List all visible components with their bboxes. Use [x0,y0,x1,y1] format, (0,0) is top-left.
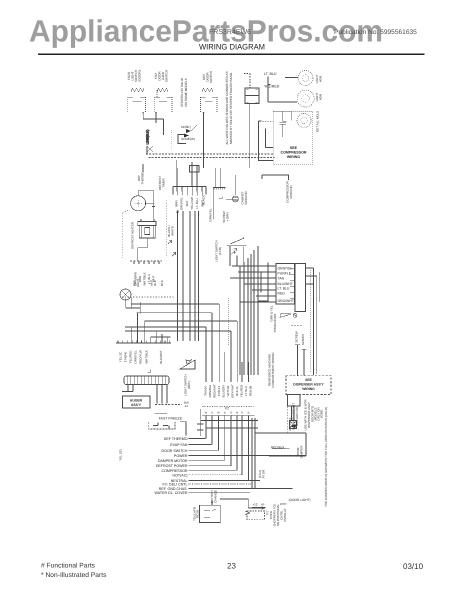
svg-text:RC2B: RC2B [196,510,200,518]
svg-text:GREEN: GREEN [301,334,305,345]
harness label box [276,264,295,305]
svg-text:AND ADD ON: AND ADD ON [295,407,299,426]
harness connector shell [290,264,306,312]
wire from S1/S2 junction [143,113,163,135]
svg-text:G: G [230,412,232,415]
refr lamp L4 [120,289,131,300]
harness exit wires [261,263,317,376]
dash under screw [291,325,303,327]
svg-text:WIRING: WIRING [287,155,301,159]
matrix horizontals [201,418,306,489]
harness dashed pair to compressor [146,153,275,158]
plug bracket [178,135,186,144]
svg-text:MARKED BY SOLID OR STRIPED TRA: MARKED BY SOLID OR STRIPED TRACER BAND. [229,72,233,144]
svg-text:ASS'Y: ASS'Y [131,403,142,407]
svg-text:COMPRESSOR: COMPRESSOR [281,151,307,155]
svg-text:40W: 40W [319,76,323,82]
plug arrow 1 [186,125,197,133]
svg-text:ORN/YEL: ORN/YEL [180,197,184,211]
svg-text:AT DR: AT DR [262,469,266,479]
svg-text:GRY/WHT: GRY/WHT [231,384,235,398]
label compressor ground [286,180,294,203]
svg-text:FAST FREEZE: FAST FREEZE [159,417,183,421]
note to damper open position [324,407,328,507]
matrix verticals [206,416,249,481]
label ground screw [209,208,230,223]
page number [227,562,236,571]
svg-text:ON SOME MODELS: ON SOME MODELS [184,78,188,107]
P2 pin letters [205,412,250,415]
svg-text:R: R [211,412,213,415]
svg-text:COMPRESSOR: COMPRESSOR [162,469,188,473]
harness wire names [278,267,294,304]
DIAGRAM right vertical bus [178,192,203,342]
note all wires color coded [225,71,233,144]
svg-text:23: 23 [227,562,236,571]
svg-text:DEFROST HEATER: DEFROST HEATER [131,221,135,249]
coil switch 1 [131,88,144,92]
svg-text:FROM DOOR: FROM DOOR [273,313,277,332]
lamp L1 label [315,74,323,83]
svg-text:SEE: SEE [290,146,298,150]
heater wire color labels [134,272,165,286]
svg-text:AT-: AT- [261,503,265,507]
svg-text:DOOR SWITCH: DOOR SWITCH [162,449,188,453]
connector row ticks [116,340,171,343]
DIAGRAM top-left switches [127,70,233,145]
connector dashes heater [130,260,162,262]
svg-text:# Functional Parts: # Functional Parts [41,563,96,570]
junction box above P3 [190,162,200,172]
wires below fzr switch [230,246,244,282]
heater boundary dashed [166,200,168,256]
svg-text:SCME(W): SCME(W) [181,137,195,141]
label freezer light switch [127,70,142,82]
svg-text:YEL/RED: YEL/RED [264,85,280,89]
svg-text:Publication No. 5995561635: Publication No. 5995561635 [334,29,417,36]
svg-text:BLU/WHT: BLU/WHT [278,282,293,286]
label light modif [289,498,311,502]
svg-text:ORN/BLK: ORN/BLK [208,385,212,398]
watermark [29,13,383,48]
svg-text:PUR-14: PUR-14 [217,385,221,396]
svg-text:WIRING: WIRING [302,387,315,391]
svg-text:YEL/RED: YEL/RED [240,385,244,397]
label heater leads [167,225,175,237]
label fast freeze [154,413,183,420]
dotted divider [171,130,173,149]
label use with add kit [292,403,300,430]
wires refr lamp grid [125,297,237,343]
wire fast freeze right [180,409,204,436]
label board [193,507,200,521]
svg-text:DAMPER MOTOR: DAMPER MOTOR [158,459,188,463]
svg-text:SCREW: SCREW [295,331,299,342]
note reinforce sentence [268,352,276,388]
dispenser side labels [304,399,324,431]
label yel 103 [119,449,123,461]
svg-text:BLK: BLK [153,280,157,286]
wire thermostat to bus [138,191,155,222]
compressor box [273,111,312,165]
svg-text:* Non-Illustrated Parts: * Non-Illustrated Parts [41,572,107,579]
label defrost timer [158,176,166,191]
header rule [38,53,425,55]
door connector X box [290,421,297,429]
title WIRING DIAGRAM [199,43,265,52]
svg-text:YEL-2C: YEL-2C [119,351,123,362]
switch box S3 [201,97,218,113]
label freezer door ajar switch [154,70,169,82]
heater connector pins [134,261,159,264]
label defrost heater [131,221,135,249]
overload relay box [244,74,259,169]
lamp L3 aux [297,113,311,127]
labels above lamp grid [133,279,158,288]
svg-text:GROUND: GROUND [289,185,293,199]
fast freeze contacts [153,423,169,429]
svg-text:LT. BLU: LT. BLU [244,386,248,396]
svg-text:BLU/GRY: BLU/GRY [222,385,226,398]
svg-text:W: W [217,412,220,415]
plug marker SCME [181,137,195,141]
svg-text:RED: RED [278,292,286,296]
svg-text:DEF THERMO: DEF THERMO [164,437,188,441]
J1 wire labels [119,350,164,364]
plus12 marks [252,503,266,508]
ground screw [226,196,238,202]
svg-text:274(P4): 274(P4) [124,352,128,363]
battery box [200,501,221,523]
svg-text:PURPLE: PURPLE [278,271,292,275]
dispenser label [293,378,324,391]
svg-text:OVERLAY: OVERLAY [283,508,287,522]
lamp L2 [297,90,314,107]
svg-text:CHANGE: CHANGE [214,490,218,503]
label cabinet ground [241,191,249,205]
svg-text:FRS3R4EW6: FRS3R4EW6 [209,29,251,36]
label YEL/RED [264,85,280,89]
date code [403,562,424,571]
P2 wire labels above [204,384,253,398]
label blk [184,401,189,409]
refr light switch symbol [180,359,195,369]
svg-text:DAMPER: DAMPER [300,445,304,459]
label light switch fzr [215,240,223,261]
svg-text:BLACK: BLACK [202,195,206,205]
label grn yel from door [270,305,278,332]
dispenser box drop wires [280,395,287,434]
svg-text:B: B [224,412,226,415]
bottom rotated label cols [266,503,288,526]
svg-text:(REF): (REF) [187,381,191,389]
svg-text:TAN: TAN [278,277,285,281]
svg-text:THERMO: THERMO [141,171,145,185]
svg-text:EVAP FAN: EVAP FAN [170,443,188,447]
svg-text:SEE: SEE [305,378,313,382]
coil switch 2 [157,88,168,97]
svg-text:RED/WHT: RED/WHT [213,384,217,398]
svg-text:DEFROST POWER: DEFROST POWER [156,464,188,468]
label black lead [202,195,206,205]
DIAGRAM central vertical bus [240,246,258,375]
svg-text:W: W [205,412,208,415]
svg-text:(DOOR): (DOOR) [138,70,142,81]
svg-text:WHT/BLK: WHT/BLK [143,272,147,285]
svg-text:(DOOR LIGHT): (DOOR LIGHT) [289,498,311,502]
wire feeds into label box [230,266,276,302]
fast freeze dashed box [149,422,175,429]
svg-text:RED-08: RED-08 [249,385,253,396]
label light switch ref [184,374,192,395]
auger assy box [123,396,151,408]
svg-text:WHT: WHT [280,502,287,506]
lamp L1 [298,71,313,86]
wire drops ground [216,168,236,195]
svg-text:LT. BLU: LT. BLU [264,72,277,76]
terminal lead wires [189,439,307,493]
svg-text:B: B [248,412,250,415]
dashed lead right of auger [155,404,182,406]
label LT. BLU [264,72,277,76]
lamp L2 label [315,92,323,101]
svg-text:LT. BLU: LT. BLU [195,198,199,208]
wire compressor ground [262,175,289,180]
label from damper motor [296,445,304,459]
light switch fzr symbol [227,237,247,255]
svg-text:YEL 103: YEL 103 [119,449,123,461]
svg-text:(FZR): (FZR) [218,247,222,255]
dashed box bottom [247,511,265,520]
wire compressor feed [259,121,274,161]
arrow add kit [290,424,297,428]
svg-text:BLK-11: BLK-11 [235,386,239,396]
svg-text:COMPARTMENT WIRING: COMPARTMENT WIRING [271,352,275,388]
dispenser sub box [288,395,301,421]
svg-text:40W: 40W [319,94,323,100]
wires below J1 [122,385,167,404]
wire lamp feeds [268,77,298,103]
svg-text:SOME: SOME [319,410,323,419]
svg-text:P2: P2 [225,407,229,411]
svg-text:+12: +12 [252,503,257,507]
svg-text:F.F. DELI CNTL: F.F. DELI CNTL [163,482,188,486]
label refr door switch [202,71,213,83]
svg-text:TIMER: TIMER [162,178,166,188]
svg-text:THE DAMPER DOOR IS SHOWN IN TH: THE DAMPER DOOR IS SHOWN IN THE FULL OPE… [324,407,328,507]
svg-text:RED/YLW: RED/YLW [139,350,143,364]
svg-text:TAN-06: TAN-06 [204,386,208,396]
door screw symbol [280,313,297,317]
svg-text:R: R [241,412,243,415]
wires screws to dispenser [295,272,319,376]
wire to damper [269,433,306,456]
label battue change [210,490,218,504]
note not used on all models [316,111,320,132]
label wht [280,502,287,506]
svg-text:W: W [236,412,239,415]
label fzli at dr [258,469,266,479]
svg-text:01(BK): 01(BK) [181,125,191,129]
svg-text:WHT/BLK: WHT/BLK [145,350,149,363]
svg-text:RED/BLK: RED/BLK [271,446,286,450]
svg-text:WIRING DIAGRAM: WIRING DIAGRAM [199,43,265,52]
wire drop to timer area [143,113,204,172]
DIAGRAM terminal list [155,437,188,495]
P2 connector bar [202,415,255,418]
svg-text:WHITE: WHITE [170,226,174,236]
svg-text:HOT(AC): HOT(AC) [173,473,188,477]
label screw [295,331,299,342]
line cord X mark [147,146,153,152]
svg-text:POWER: POWER [174,454,188,458]
svg-text:YELLOW: YELLOW [190,197,194,210]
svg-text:WATER DL. COVER: WATER DL. COVER [155,491,188,495]
wires grid into P2 [206,298,268,382]
svg-text:GROUND: GROUND [244,191,248,205]
svg-text:SWITCH: SWITCH [209,71,213,83]
label P2 [225,407,229,411]
plug marker 0101 [181,125,191,129]
cabinet dashed boundary [122,210,128,258]
svg-text:LIGHT: LIGHT [136,279,140,288]
svg-text:DISPENSER ASS'Y: DISPENSER ASS'Y [293,383,324,387]
defrost heater H1 [138,219,156,238]
svg-text:ORN/YEL: ORN/YEL [278,267,293,271]
svg-text:BLK: BLK [185,201,189,207]
svg-text:+ GRN: + GRN [226,212,230,221]
ground connector bar [213,187,225,219]
svg-text:-12: -12 [184,404,188,408]
svg-text:ORN/YEL: ORN/YEL [134,350,138,364]
connector P3 [173,187,206,195]
switch box S2 [154,97,172,113]
bracket under labels [148,370,151,373]
dashed riser add kit [289,418,291,431]
svg-text:WHT-02: WHT-02 [226,385,230,396]
bottom connect wires [220,499,265,515]
compressor internals [263,111,287,147]
P3 wire labels [175,197,205,211]
label defrost thermostat [137,171,145,185]
connector J1 shell [124,376,169,385]
wire drops into P3 [177,164,197,186]
line cord label [146,130,150,145]
svg-text:BRN: BRN [175,200,179,206]
svg-text:YEL/RED: YEL/RED [129,350,133,364]
dispenser dashed box [286,376,331,395]
svg-text:NOT ALL MDLS: NOT ALL MDLS [316,111,320,132]
footnote functional parts [41,563,96,570]
label red/blk [271,446,290,450]
label green [301,334,305,345]
svg-text:LINE(BLK): LINE(BLK) [146,130,150,145]
svg-text:AUGER: AUGER [130,399,143,403]
svg-text:ORG/WHT: ORG/WHT [278,299,294,303]
coil switch 3 [202,88,213,92]
note striped or solid wires [180,77,188,107]
model number text [209,29,251,36]
timer arrows [168,210,179,256]
switch box S1 [128,97,146,113]
auger assy label [130,399,143,408]
svg-text:LT. BLU: LT. BLU [278,287,290,291]
svg-text:BLK: BLK [160,280,164,286]
publication number text [334,29,417,36]
svg-text:SWITCH: SWITCH [165,70,169,82]
svg-text:03/10: 03/10 [403,562,424,571]
svg-text:BLK/WHT: BLK/WHT [159,350,163,364]
footnote non-illustrated parts [41,572,107,579]
plug arrow 2 [184,134,189,138]
svg-text:GRN/YEL: GRN/YEL [209,208,213,222]
cabinet dashed row [122,296,174,298]
defrost thermostat DT1 [131,196,146,211]
wire heater down [138,238,148,261]
compressor label [281,146,307,159]
dotted separator above P2 [202,406,255,408]
